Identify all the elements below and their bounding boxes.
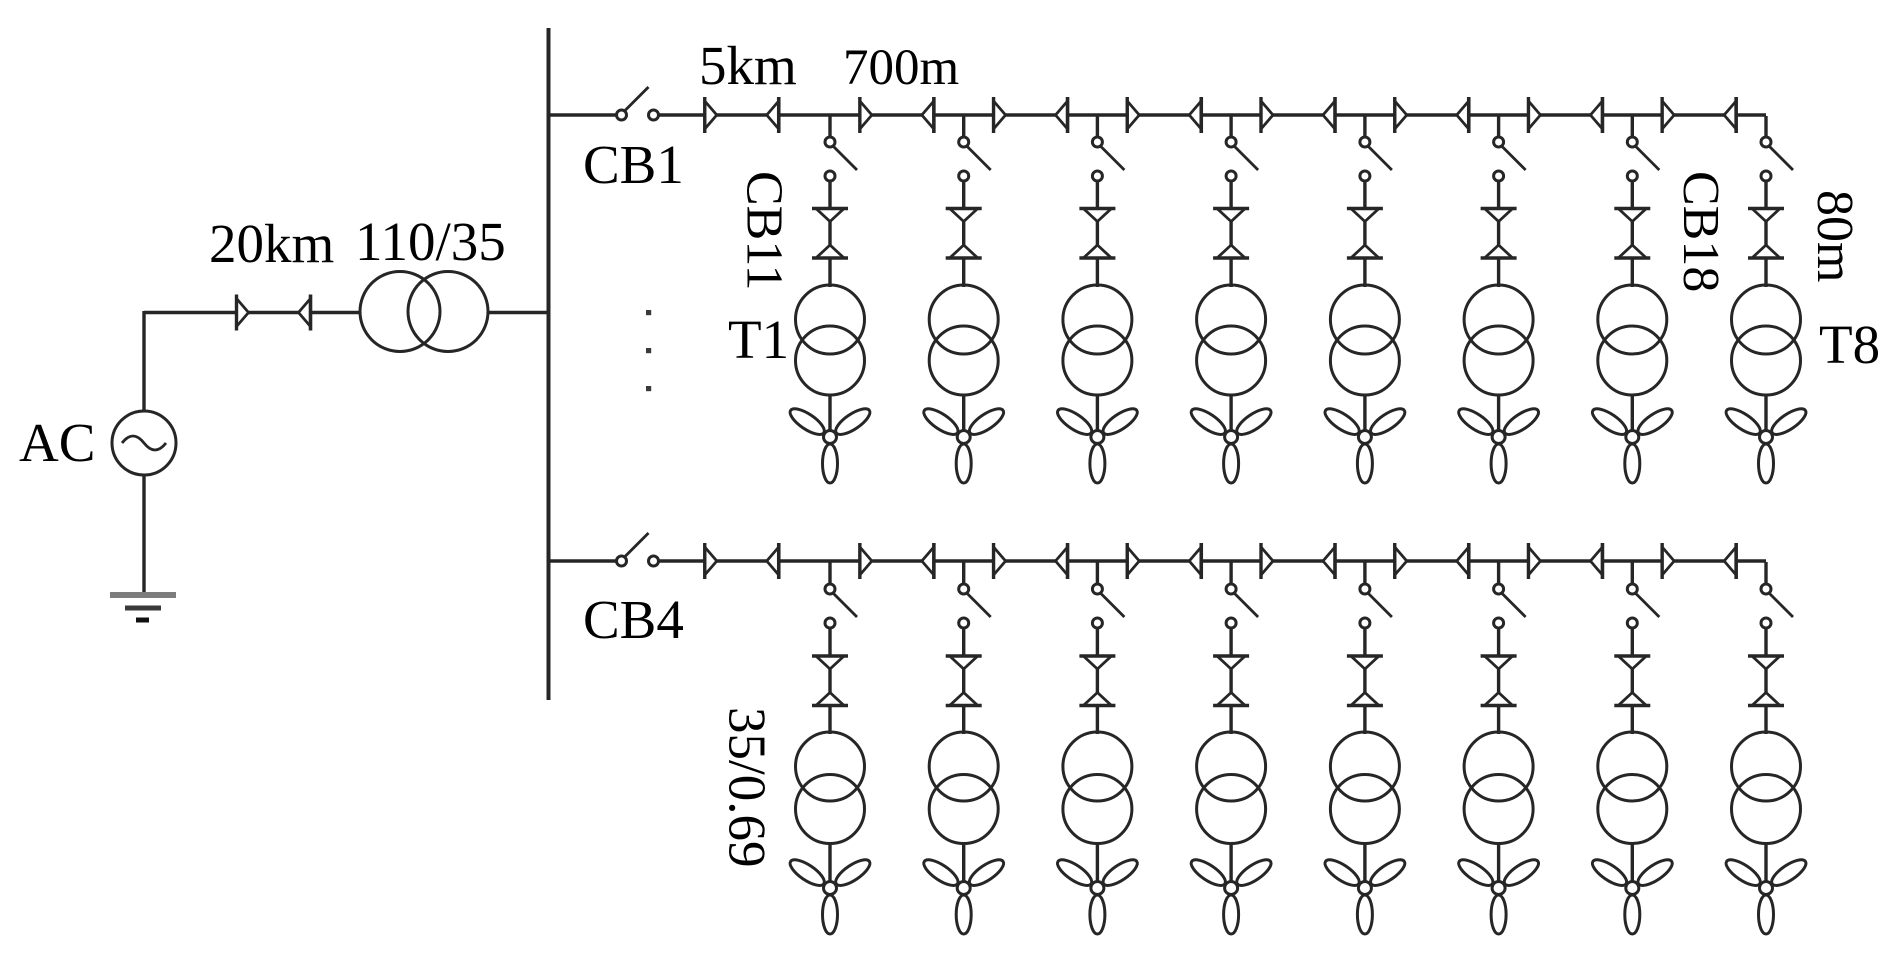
cable section markers (20 km line) [237, 295, 311, 331]
wind turbine WT3 [1054, 404, 1141, 483]
svg-text:80m: 80m [1806, 190, 1863, 282]
wire [1497, 116, 1500, 138]
wire [1363, 181, 1366, 288]
transformer T4-8 (35/0.69) (two-winding) [1732, 732, 1801, 844]
wire [1631, 116, 1634, 138]
cable section markers (5 km, CB1 to T1 tap) [705, 97, 779, 133]
wind turbine WT4-6 [1455, 855, 1542, 934]
disconnect switch CB13 (open) [1092, 137, 1124, 181]
cable section markers (700 m, tap 4-1 to 4-2) [860, 543, 934, 579]
disconnect switch CB12 (open) [959, 137, 991, 181]
disconnect switch CB16 (open) [1494, 137, 1526, 181]
wire [659, 113, 1767, 116]
ground [110, 595, 176, 620]
wind turbine WT1 [786, 404, 873, 483]
cable section markers (80 m drop, tap 4-5) [1347, 656, 1383, 706]
ellipsis dots (more feeders) [646, 310, 651, 391]
disconnect switch CB48 (open) [1761, 584, 1793, 628]
wire [1096, 181, 1099, 288]
cable section markers (80 m drop, tap 4-8) [1748, 656, 1784, 706]
wind turbine WT8 [1722, 404, 1809, 483]
wind turbine WT4-1 [786, 855, 873, 934]
cable section markers (80 m drop, tap 4-2) [946, 656, 982, 706]
disconnect switch CB11 (open) [825, 137, 857, 181]
wire [1229, 628, 1232, 735]
wire [1631, 394, 1634, 432]
svg-text:110/35: 110/35 [355, 211, 506, 272]
wind turbine WT4-5 [1321, 855, 1408, 934]
cable section markers (700 m, tap 1-4 to 1-5) [1261, 97, 1335, 133]
wire [1764, 562, 1767, 585]
svg-text:T1: T1 [728, 309, 789, 370]
disconnect switch CB47 (open) [1627, 584, 1659, 628]
cable section markers (700 m, tap 1-2 to 1-3) [994, 97, 1068, 133]
wire [1631, 562, 1634, 585]
wire [1631, 181, 1634, 288]
wire [828, 181, 831, 288]
cable section markers (700 m, tap 1-1 to 1-2) [860, 97, 934, 133]
disconnect switch CB15 (open) [1360, 137, 1392, 181]
cable section markers (700 m, tap 4-4 to 4-5) [1261, 543, 1335, 579]
transformer T4-3 (35/0.69) (two-winding) [1063, 732, 1132, 844]
wire [828, 843, 831, 884]
cable section markers (700 m, tap 1-7 to 1-8) [1662, 97, 1736, 133]
cable section markers (80 m drop, tap 4-4) [1213, 656, 1249, 706]
wire [828, 394, 831, 432]
transformer T6 (two-winding) [1464, 285, 1533, 395]
transformer T4-6 (35/0.69) (two-winding) [1464, 732, 1533, 844]
wire [1764, 394, 1767, 432]
svg-text:CB11: CB11 [736, 171, 793, 290]
wire [659, 559, 1767, 562]
wire [1497, 394, 1500, 432]
wire [1631, 843, 1634, 884]
transformer T1 (two-winding) [796, 285, 865, 395]
wire [962, 181, 965, 288]
transformer T7 (two-winding) [1598, 285, 1667, 395]
wire [828, 562, 831, 585]
wire [144, 311, 361, 314]
wind turbine WT2 [920, 404, 1007, 483]
cable section markers (80 m drop, tap 1-2) [946, 209, 982, 259]
transformer T4-5 (35/0.69) (two-winding) [1330, 732, 1399, 844]
svg-text:T8: T8 [1819, 314, 1880, 375]
wind turbine WT4-8 [1722, 855, 1809, 934]
wire [549, 559, 617, 562]
wind turbine WT4-2 [920, 855, 1007, 934]
wire [1096, 843, 1099, 884]
transformer T4-2 (35/0.69) (two-winding) [929, 732, 998, 844]
wind turbine WT4-4 [1188, 855, 1275, 934]
wind turbine WT4-7 [1589, 855, 1676, 934]
transformer T4-1 (35/0.69) (two-winding) [796, 732, 865, 844]
wind turbine WT7 [1589, 404, 1676, 483]
wire [1764, 181, 1767, 288]
wire [1229, 562, 1232, 585]
transformer T8 (two-winding) [1732, 285, 1801, 395]
wire [1764, 843, 1767, 884]
transformer T4 (two-winding) [1197, 285, 1266, 395]
disconnect switch CB18 (open) [1761, 137, 1793, 181]
disconnect switch CB14 (open) [1226, 137, 1258, 181]
wire [1096, 628, 1099, 735]
wire [1631, 628, 1634, 735]
wire [488, 311, 549, 314]
wire [1497, 562, 1500, 585]
cable section markers (80 m drop, tap 1-3) [1079, 209, 1115, 259]
wire [828, 116, 831, 138]
wire [1229, 394, 1232, 432]
wire [1363, 394, 1366, 432]
wind turbine WT4-3 [1054, 855, 1141, 934]
cable section markers (80 m drop, tap 1-5) [1347, 209, 1383, 259]
transformer T4-4 (35/0.69) (two-winding) [1197, 732, 1266, 844]
cable section markers (700 m, tap 1-6 to 1-7) [1528, 97, 1602, 133]
wire [1363, 562, 1366, 585]
wire [1764, 116, 1767, 138]
svg-text:20km: 20km [209, 213, 334, 274]
wire [1096, 562, 1099, 585]
disconnect switch CB41 (open) [825, 584, 857, 628]
svg-text:CB18: CB18 [1672, 171, 1729, 292]
wire [1229, 843, 1232, 884]
svg-text:CB1: CB1 [583, 134, 684, 195]
wire [1497, 628, 1500, 735]
cable section markers (700 m, tap 4-3 to 4-4) [1127, 543, 1201, 579]
cable section markers (80 m drop, tap 1-6) [1481, 209, 1517, 259]
wind turbine WT6 [1455, 404, 1542, 483]
cable section markers (80 m drop, tap 1-4) [1213, 209, 1249, 259]
transformer T5 (two-winding) [1330, 285, 1399, 395]
circuit breaker CB4 (open switch) [617, 533, 659, 566]
svg-text:700m: 700m [843, 40, 959, 96]
wire [962, 628, 965, 735]
transformer T3 (two-winding) [1063, 285, 1132, 395]
wind turbine WT5 [1321, 404, 1408, 483]
cable section markers (700 m, tap 1-5 to 1-6) [1395, 97, 1469, 133]
cable section markers (5 km, CB4 to first tap) [705, 543, 779, 579]
cable section markers (80 m drop, tap 1-8) [1748, 209, 1784, 259]
svg-text:CB4: CB4 [583, 589, 684, 650]
wire [1497, 181, 1500, 288]
wire [962, 116, 965, 138]
cable section markers (700 m, tap 4-6 to 4-7) [1528, 543, 1602, 579]
wire [549, 113, 617, 116]
wind turbine WT4 [1188, 404, 1275, 483]
wire [1363, 843, 1366, 884]
disconnect switch CB43 (open) [1092, 584, 1124, 628]
disconnect switch CB46 (open) [1494, 584, 1526, 628]
cable section markers (700 m, tap 4-7 to 4-8) [1662, 543, 1736, 579]
transformer T4-7 (35/0.69) (two-winding) [1598, 732, 1667, 844]
cable section markers (80 m drop, tap 1-1) [812, 209, 848, 259]
cable section markers (80 m drop, tap 1-7) [1614, 209, 1650, 259]
disconnect switch CB45 (open) [1360, 584, 1392, 628]
wire [1363, 116, 1366, 138]
wire [962, 562, 965, 585]
wire [1229, 116, 1232, 138]
wire [828, 628, 831, 735]
svg-text:5km: 5km [699, 35, 797, 96]
cable section markers (80 m drop, tap 4-7) [1614, 656, 1650, 706]
wire [1096, 394, 1099, 432]
circuit breaker CB1 (open switch) [617, 87, 659, 120]
disconnect switch CB17 (open) [1627, 137, 1659, 181]
wire [962, 843, 965, 884]
wire [962, 394, 965, 432]
bus 35 kV (vertical busbar) [547, 28, 551, 700]
transformer T2 (two-winding) [929, 285, 998, 395]
wire [1096, 116, 1099, 138]
wire [142, 311, 145, 411]
wire [1764, 628, 1767, 735]
wire [142, 475, 145, 593]
wire [1229, 181, 1232, 288]
cable section markers (700 m, tap 1-3 to 1-4) [1127, 97, 1201, 133]
cable section markers (80 m drop, tap 4-6) [1481, 656, 1517, 706]
cable section markers (700 m, tap 4-5 to 4-6) [1395, 543, 1469, 579]
svg-text:AC: AC [19, 412, 95, 473]
disconnect switch CB44 (open) [1226, 584, 1258, 628]
wire [1363, 628, 1366, 735]
AC source [112, 411, 176, 475]
transformer 110/35 (grid transformer) [360, 272, 488, 352]
cable section markers (700 m, tap 4-2 to 4-3) [994, 543, 1068, 579]
cable section markers (80 m drop, tap 4-1) [812, 656, 848, 706]
disconnect switch CB42 (open) [959, 584, 991, 628]
cable section markers (80 m drop, tap 4-3) [1079, 656, 1115, 706]
wire [1497, 843, 1500, 884]
svg-text:35/0.69: 35/0.69 [718, 707, 776, 867]
